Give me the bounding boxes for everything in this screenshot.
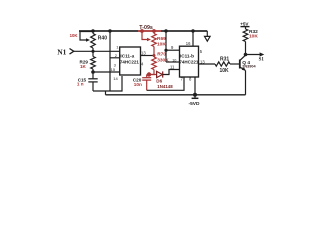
wire N1 input to IC11-a pin 1 (74, 50, 120, 52)
resistor R29 body (91, 57, 96, 70)
svg-text:2N3904: 2N3904 (242, 65, 256, 69)
wire to pin 10 (166, 61, 180, 63)
svg-text:R31: R31 (220, 57, 229, 63)
wire x110 to IC11-a pin 2 (110, 57, 120, 59)
capacitor C15 (92, 72, 94, 79)
svg-text:10K: 10K (70, 33, 79, 38)
junction dot -5VD node (193, 93, 197, 97)
svg-text:13: 13 (141, 51, 146, 56)
svg-text:16: 16 (186, 41, 191, 46)
svg-text:10K: 10K (220, 68, 230, 74)
transistor Q4 2N3904 (239, 60, 241, 69)
svg-text:S1: S1 (259, 57, 265, 62)
wire pin 8 to ground rail (194, 77, 196, 95)
svg-text:10: 10 (172, 58, 176, 62)
svg-text:R70: R70 (157, 52, 166, 58)
wire rail branch to IC11-b pins 9/10 (165, 31, 167, 62)
wire node to IC11-a pin 15 (93, 71, 120, 73)
svg-text:74HC221: 74HC221 (179, 59, 199, 64)
junction dot pin13/R69/R70 (153, 54, 156, 57)
svg-text:D6: D6 (156, 79, 162, 84)
junction dot red bracket on rail (140, 29, 144, 33)
wire C15 bottom to pin 14 (bottom loop) (93, 76, 122, 91)
wire vertical rail branch at x110 (109, 31, 111, 91)
port N1 chevron (70, 49, 74, 55)
capacitor C20 (red) (146, 75, 148, 78)
wire IC11-b output to R31 (199, 63, 216, 65)
resistor R70 (red) body (152, 57, 157, 70)
junction dot rail/x166 (164, 29, 167, 32)
wire connector C15 loop to ground rail (105, 91, 107, 95)
net T-09s red rail section (138, 30, 161, 32)
svg-text:+5V: +5V (240, 21, 249, 26)
svg-text:15: 15 (111, 67, 116, 72)
resistor R31 body (215, 62, 230, 66)
op IC11-b 74HC221 box (180, 46, 199, 77)
svg-text:R69: R69 (157, 36, 166, 42)
wire to pin 9 (166, 49, 180, 51)
junction dot R40 top on rail (91, 29, 94, 32)
svg-text:R40: R40 (98, 35, 107, 41)
junction dot R29/C15/pin15 node (91, 70, 95, 74)
svg-text:14: 14 (113, 76, 118, 81)
diode D6 1N4148 (149, 74, 157, 76)
R69 wiper bracket wire (142, 31, 147, 40)
ground stub and tick (194, 95, 196, 98)
svg-text:1N4148: 1N4148 (157, 84, 173, 89)
svg-text:1K: 1K (80, 64, 87, 69)
svg-text:1 n: 1 n (77, 82, 84, 87)
wire Q4 emitter to ground rail (245, 71, 247, 95)
op IC11-a 74HC221 box (120, 47, 141, 75)
resistor R69 (red trimmer) body (152, 34, 157, 47)
wire R31 to Q4 base (230, 63, 240, 65)
pin 16 wire from rail (192, 31, 194, 46)
resistor R40 (trimmer) body (91, 34, 96, 49)
top VDD rail (left black section) (79, 30, 138, 32)
svg-text:10K: 10K (157, 42, 166, 48)
svg-text:IC11-b: IC11-b (180, 54, 194, 59)
junction dot rail/x110 (108, 29, 111, 32)
svg-text:11: 11 (170, 64, 175, 69)
junction dot rail/pin16 (191, 29, 194, 32)
junction dot collector/S1 (244, 53, 248, 57)
svg-text:-5VD: -5VD (189, 101, 200, 107)
junction dot N1/R40/R29 node (91, 50, 94, 53)
wire D6 cathode to IC11-b pin 11 (163, 70, 180, 75)
svg-text:74HC221: 74HC221 (120, 59, 140, 64)
VDD open-triangle power symbol at rail end (206, 31, 208, 36)
junction dot pin9 branch (164, 49, 167, 52)
svg-text:IC11-a: IC11-a (120, 54, 134, 59)
resistor R32 body (243, 29, 248, 42)
svg-text:N1: N1 (57, 47, 66, 56)
ground rail -5VD (106, 94, 246, 96)
svg-text:10n: 10n (134, 82, 142, 87)
top VDD rail (right black section) (161, 30, 207, 32)
wire IC11-a pin 13 to R69/R70 junction (141, 55, 155, 57)
junction dot R70/C20/D6 node (147, 72, 151, 76)
port S1 output wire with arrow (246, 54, 260, 56)
R40 wiper bracket wire (80, 32, 93, 41)
svg-text:10K: 10K (249, 34, 258, 40)
junction dot R69 top on rail (152, 29, 156, 33)
